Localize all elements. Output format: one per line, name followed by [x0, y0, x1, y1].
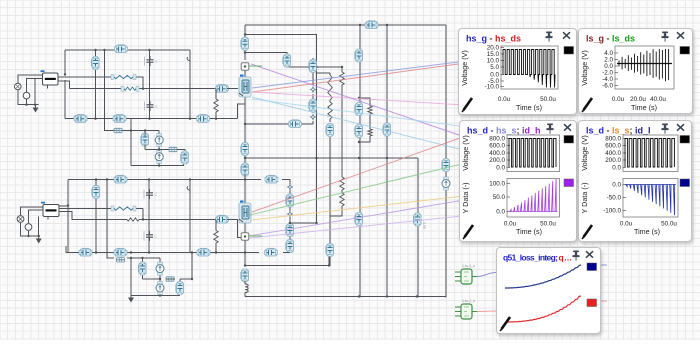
- svg-text:50.0: 50.0: [493, 194, 506, 201]
- wire ch1 top rail y50: [65, 49, 190, 51]
- transistor Q12 chain: [309, 99, 317, 112]
- device ls probed cluster: [239, 202, 251, 224]
- transistor Q4 mid rail: [113, 115, 126, 123]
- component x360 top: [355, 49, 363, 62]
- main column ch2: [244, 174, 246, 266]
- source I4: [156, 282, 164, 295]
- wire source loop ch1: [18, 75, 43, 106]
- svg-text:50.0u: 50.0u: [540, 96, 556, 103]
- wire ch2 bottom rail y265.5: [245, 253, 329, 266]
- wire green port1: [249, 65, 262, 67]
- fuse F1: [114, 128, 122, 132]
- svg-text:1-to-1_s: 1-to-1_s: [462, 264, 475, 268]
- transistor Q10 rail y25: [365, 21, 378, 29]
- source V4: [25, 224, 32, 231]
- source V1: [14, 83, 21, 90]
- svg-text:q…: q…: [559, 253, 573, 263]
- fuse F2: [169, 147, 177, 151]
- column x330 resistors ch1: [245, 73, 330, 266]
- svg-text:0.0: 0.0: [612, 181, 621, 188]
- resistor R2 vertical: [215, 89, 217, 119]
- ground G1: [35, 105, 37, 109]
- svg-text:40.0u: 40.0u: [650, 96, 666, 103]
- wire probe purple3: [249, 204, 578, 238]
- svg-text:Time (s): Time (s): [516, 227, 542, 236]
- wire ch1 lower-left cluster: [131, 119, 184, 166]
- wire mid-rail up to column: [238, 104, 246, 119]
- wire source loop ch2: [21, 207, 49, 236]
- wire box2 pins right: [59, 206, 216, 220]
- wire x68 drop ch2: [67, 180, 69, 253]
- transistor Q5 mid rail: [197, 115, 210, 123]
- svg-text:ls_g - ls_ds: ls_g - ls_ds: [586, 34, 635, 44]
- svg-text:Voltage (V): Voltage (V): [460, 50, 469, 86]
- source I2: [155, 150, 163, 163]
- port P1: [241, 63, 249, 71]
- wire ch1 gate rail y88.7: [70, 88, 217, 90]
- port P2: [241, 233, 249, 241]
- wire x360: [359, 25, 361, 298]
- probe T1 green: [455, 264, 477, 284]
- svg-text:0.0: 0.0: [612, 164, 621, 171]
- wire green port2: [249, 235, 262, 237]
- transistor Q3 mid rail: [74, 115, 87, 123]
- resistor branch x370: [359, 98, 370, 142]
- wire probe red2 ls: [252, 138, 460, 212]
- inductor L1 vertical: [91, 57, 99, 70]
- resistor R5 vertical ch2: [215, 220, 217, 253]
- svg-text:200.0: 200.0: [489, 157, 505, 164]
- svg-text:1-to-1_s: 1-to-1_s: [462, 299, 475, 303]
- svg-text:400.0: 400.0: [489, 150, 505, 157]
- wire probe lightblue1: [252, 97, 459, 149]
- wire probe red1 hs: [252, 64, 458, 92]
- resistor R3: [111, 206, 114, 211]
- transistor Q11 chain: [309, 60, 317, 73]
- wire probe pink1: [253, 92, 560, 111]
- inductor L3 column2: [244, 281, 246, 284]
- wire rail y34.5: [245, 35, 317, 159]
- svg-text:200.0: 200.0: [605, 157, 621, 164]
- svg-text:Time (s): Time (s): [634, 227, 660, 236]
- inductor ch2: [92, 186, 100, 199]
- svg-text:q51_loss_integ;: q51_loss_integ;: [503, 253, 558, 263]
- component small x287: [283, 54, 291, 67]
- svg-text:0.0u: 0.0u: [612, 96, 625, 103]
- wire x190 drop with hook: [189, 50, 191, 119]
- wire ch1 mid rail y118.7: [65, 118, 238, 120]
- column x342 ch: [330, 67, 342, 216]
- transistor Q30: [286, 224, 294, 237]
- transistor Q31: [286, 240, 294, 253]
- wire y52.5 branch: [245, 53, 317, 68]
- wire box pin y77 resistor: [58, 77, 143, 89]
- star S1: [310, 87, 315, 92]
- wire probe yellow1: [252, 183, 578, 220]
- transistor Q29: [286, 194, 294, 207]
- resistor R7 inline gate rail: [121, 86, 124, 91]
- svg-text:0.0: 0.0: [496, 208, 505, 215]
- source I1: [155, 134, 163, 147]
- svg-text:4.99: 4.99: [422, 222, 426, 229]
- wire x107 drop ch2: [107, 180, 160, 259]
- wire probe blue1: [252, 62, 458, 88]
- transistor Q9 column: [241, 163, 249, 176]
- transistor Q33 x329: [326, 244, 334, 257]
- svg-text:C: C: [155, 105, 158, 109]
- svg-text:0.0u: 0.0u: [498, 96, 511, 103]
- transistor Q22 gate2: [216, 215, 229, 223]
- wire ch1 rail1 to mid: [64, 50, 66, 119]
- probe T2 green: [455, 299, 477, 319]
- transistor Q21 rail2: [114, 175, 127, 183]
- transistor Q6b cluster: [181, 151, 189, 164]
- wire top rail y25: [245, 24, 446, 26]
- wire x104.5 drop: [105, 50, 160, 131]
- svg-text:Voltage (V): Voltage (V): [461, 135, 470, 171]
- svg-text:50.0u: 50.0u: [661, 220, 677, 227]
- svg-text:ls_d - ls_s; id_l: ls_d - ls_s; id_l: [586, 125, 651, 135]
- svg-text:20.0u: 20.0u: [630, 96, 646, 103]
- wire ch2 hook drop x192: [175, 180, 192, 283]
- main column x245 ch1: [244, 25, 246, 165]
- svg-text:C: C: [155, 193, 158, 197]
- device hs probed cluster: [239, 76, 251, 98]
- wire probe lightblue2: [252, 99, 560, 139]
- resistor R4: [127, 218, 139, 221]
- transistor x446: [442, 159, 450, 172]
- transistor Q32 rail y252.5r: [245, 252, 290, 254]
- chain x313 ch1: [312, 58, 314, 124]
- wire probe1 to scope blue: [477, 273, 496, 277]
- ground G3: [38, 236, 40, 240]
- source V3: [17, 216, 24, 223]
- source I3: [156, 262, 164, 275]
- wire x95.5 drop: [95, 50, 97, 119]
- wire y223: [290, 222, 317, 224]
- star S4: [287, 211, 292, 216]
- transistor Q8 column: [241, 143, 249, 156]
- transistor Q28: [265, 175, 278, 183]
- svg-text:800.0: 800.0: [605, 135, 621, 142]
- driver box U2: [43, 205, 59, 217]
- resistor R1 gate ch1: [111, 75, 114, 80]
- fuse F4: [166, 277, 174, 281]
- svg-text:0.0u: 0.0u: [620, 220, 633, 227]
- wire probe purple2: [249, 181, 578, 236]
- svg-text:0.0u: 0.0u: [504, 220, 517, 227]
- transistor Q1 top rail: [115, 45, 128, 53]
- svg-text:Voltage (V): Voltage (V): [580, 50, 589, 86]
- svg-text:hs_g - hs_ds: hs_g - hs_ds: [466, 33, 521, 43]
- svg-text:800.0: 800.0: [489, 135, 505, 142]
- svg-text:600.0: 600.0: [605, 142, 621, 149]
- wire ch2 top rail y179.5: [68, 179, 245, 181]
- source probe x446: [442, 177, 450, 190]
- driver box U1: [43, 73, 59, 85]
- svg-text:-10.0: -10.0: [485, 83, 500, 90]
- svg-text:Y Data (-): Y Data (-): [461, 182, 470, 213]
- transistor Q25: [197, 248, 210, 256]
- wire probe green1 ls: [250, 136, 578, 215]
- svg-text:-100.0: -100.0: [603, 207, 621, 214]
- source V2: [23, 92, 30, 99]
- wire stub right blue: [598, 264, 607, 266]
- wire box pin y81 down right: [48, 81, 70, 89]
- component J2 hook: [187, 187, 190, 191]
- transistor x387: [383, 123, 391, 136]
- capacitor C4: [144, 231, 158, 241]
- star S3: [287, 184, 292, 189]
- svg-text:Voltage (V): Voltage (V): [580, 135, 589, 171]
- svg-text:-6.0: -6.0: [602, 83, 613, 90]
- capacitor C1: [144, 56, 158, 66]
- svg-text:400.0: 400.0: [605, 150, 621, 157]
- transistor Q26 cluster2: [138, 262, 146, 275]
- svg-text:0.0: 0.0: [496, 164, 505, 171]
- bottom rail y297.5: [245, 297, 446, 298]
- component J1 hook: [187, 57, 190, 61]
- transistor x360 mid: [355, 103, 363, 116]
- svg-text:5.0: 5.0: [490, 64, 499, 71]
- wire x418: [417, 158, 419, 298]
- wire x96 drop ch2: [95, 180, 97, 253]
- transistor Q13 y124: [289, 120, 302, 128]
- svg-text:hs_d - hs_s; id_h: hs_d - hs_s; id_h: [467, 125, 541, 135]
- capacitor C3: [144, 189, 158, 199]
- wire rail2 right + chain x290: [245, 180, 290, 253]
- node rail1 junctions: [94, 49, 96, 51]
- transistor Q14 x330: [326, 124, 334, 137]
- resistor R6 x342 top: [340, 72, 344, 85]
- svg-text:Time (s): Time (s): [631, 103, 657, 112]
- wire x387: [386, 25, 388, 298]
- wire y124: [245, 123, 313, 125]
- transistor Q7 column top: [241, 37, 249, 50]
- wire x446: [445, 25, 447, 298]
- wire x149 caps ch2: [148, 180, 150, 253]
- wire probe2 to scope red: [477, 310, 496, 313]
- transistor Q27 column2: [241, 269, 249, 282]
- ch2 lower cluster: [131, 258, 180, 296]
- svg-text:600.0: 600.0: [489, 142, 505, 149]
- svg-text:-50.0: -50.0: [607, 194, 622, 201]
- transistor Q23: [79, 248, 92, 256]
- transistor Q6 cluster: [141, 133, 149, 146]
- wire x149.5 cap branch: [149, 50, 151, 119]
- ground G4: [130, 295, 132, 299]
- fuse F3: [117, 258, 125, 262]
- transistor Q24: [114, 248, 127, 256]
- transistor Q2 gate rail: [216, 85, 229, 93]
- transistor x418: [413, 213, 421, 226]
- wire ch1 bottom rail y158: [245, 157, 418, 159]
- wire stub right red: [598, 300, 607, 302]
- wire probe purple1: [251, 64, 459, 135]
- svg-text:Time (s): Time (s): [516, 103, 542, 112]
- component L-shaped x180: [176, 282, 184, 295]
- svg-text:100.0: 100.0: [489, 180, 505, 187]
- capacitor C2: [144, 101, 158, 111]
- wire ch2 mid rail y252.5: [66, 252, 245, 254]
- svg-text:50.0u: 50.0u: [540, 220, 556, 227]
- star S2: [310, 114, 315, 119]
- svg-text:Y Data (-): Y Data (-): [580, 182, 589, 213]
